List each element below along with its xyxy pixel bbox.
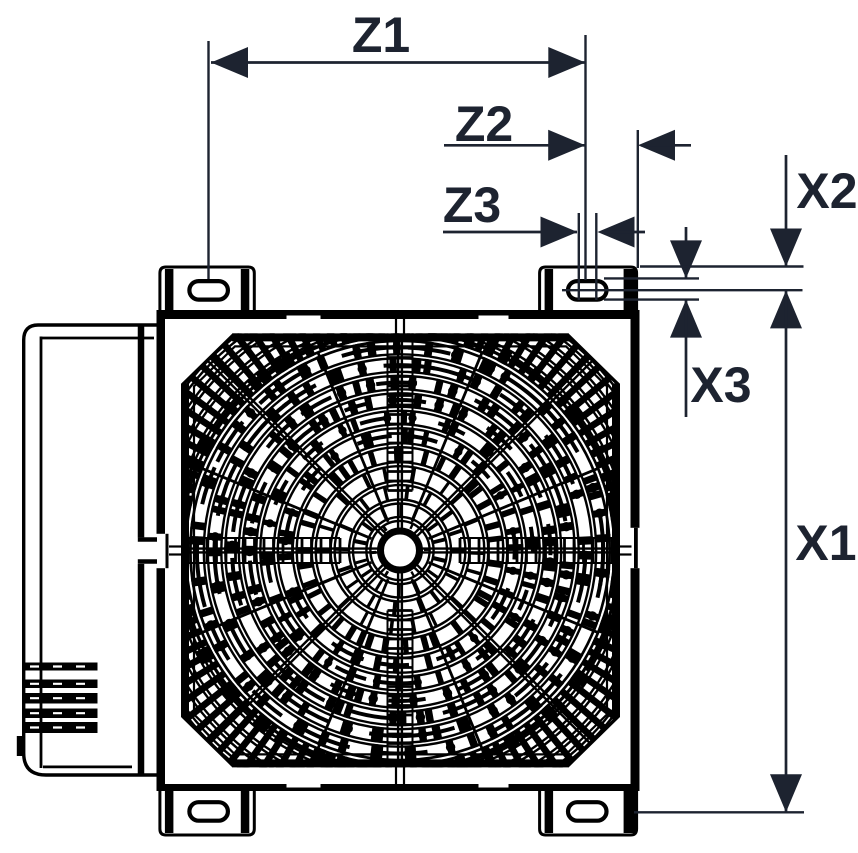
svg-text:X2: X2 — [796, 163, 857, 219]
svg-text:X3: X3 — [690, 357, 751, 413]
svg-text:Z1: Z1 — [352, 7, 410, 63]
svg-text:Z2: Z2 — [455, 96, 513, 152]
svg-text:Z3: Z3 — [443, 177, 501, 233]
svg-text:X1: X1 — [795, 515, 856, 571]
